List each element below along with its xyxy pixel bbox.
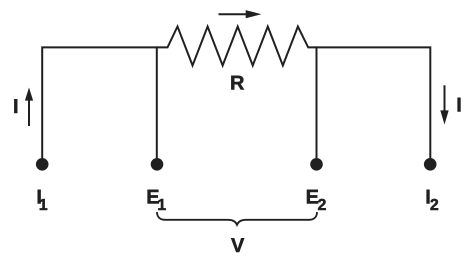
svg-text:I: I <box>13 96 19 118</box>
svg-text:2: 2 <box>430 197 439 214</box>
svg-text:1: 1 <box>39 197 48 214</box>
svg-text:V: V <box>231 235 245 257</box>
svg-text:R: R <box>230 73 245 95</box>
svg-text:1: 1 <box>157 197 166 214</box>
svg-text:2: 2 <box>318 197 327 214</box>
svg-text:I: I <box>456 95 462 117</box>
